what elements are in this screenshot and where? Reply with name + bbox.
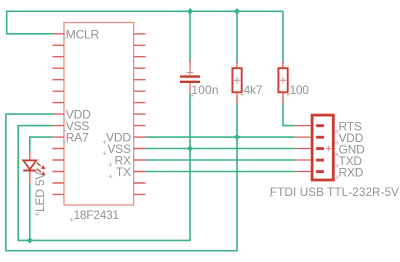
- origin cross for RXD conn label: [335, 175, 339, 179]
- wire RTS net: [283, 103, 295, 126]
- origin cross for VSS left label: [63, 128, 67, 132]
- origin cross for RTS label: [335, 129, 339, 133]
- svg-text:FTDI USB TTL-232R-5V: FTDI USB TTL-232R-5V: [270, 186, 399, 199]
- pin name VDD left: [66, 108, 91, 122]
- connector J1 pin name VDD: [339, 131, 364, 145]
- resistor R2 origin cross: [280, 77, 287, 84]
- IC U1 value 18F2431: [74, 208, 120, 222]
- resistor R2 value 100: [290, 83, 310, 97]
- svg-text:LED 5V: LED 5V: [33, 172, 47, 212]
- wire resistor R2 top drop: [282, 11, 284, 63]
- LED D1 cathode bar: [23, 170, 36, 172]
- pin name TX: [116, 165, 131, 179]
- resistor R2 bottom lead: [282, 92, 284, 103]
- capacitor C1 plates: [180, 77, 200, 82]
- connector J1 origin cross: [326, 146, 331, 151]
- IC U1 left pins: [53, 34, 65, 195]
- IC U1 right pins: [134, 34, 146, 195]
- connector J1 pin name GND: [339, 143, 366, 157]
- origin cross for GND conn label: [335, 152, 339, 156]
- wire VSS loop left: [18, 93, 190, 241]
- origin cross for VDD right label: [103, 140, 107, 144]
- connector J1 value FTDI USB TTL-232R-5V: [270, 186, 399, 199]
- origin cross for VDD left label: [63, 117, 67, 121]
- resistor R2 top lead: [282, 62, 284, 69]
- wire RX to TXD: [146, 159, 295, 161]
- origin cross for FTDI value label: [269, 193, 273, 197]
- origin cross for 100 label: [286, 93, 290, 97]
- pin name VDD right: [106, 131, 131, 145]
- connector J1 pin name TXD: [339, 154, 363, 168]
- origin cross for VDD conn label: [335, 141, 339, 145]
- origin cross for RA7 label: [63, 140, 67, 144]
- connector J1 FTDI box: [312, 115, 333, 180]
- origin cross for 18F2431 label: [70, 218, 74, 222]
- LED D1 triangle: [23, 160, 36, 169]
- connector J1 pin stubs: [295, 126, 311, 172]
- resistor R1 value 4k7: [244, 83, 263, 97]
- wire TX to RXD: [146, 171, 295, 173]
- LED D1 light arrow 2: [37, 169, 46, 176]
- connector J1 pin name RTS: [339, 120, 362, 134]
- wire VSS row right: [146, 148, 295, 150]
- LED D1 light arrow 1: [37, 163, 46, 170]
- svg-text:4k7: 4k7: [244, 83, 263, 97]
- origin cross for RX label: [109, 163, 113, 167]
- svg-text:MCLR: MCLR: [66, 27, 100, 41]
- svg-text:100n: 100n: [191, 83, 219, 97]
- capacitor C1 value 100n: [191, 83, 219, 97]
- capacitor C1 leads: [189, 60, 191, 93]
- connector J1 pin name RXD: [339, 166, 364, 180]
- svg-text:100: 100: [290, 83, 310, 97]
- pin name VSS right: [107, 142, 131, 156]
- origin cross for TX label: [109, 174, 113, 178]
- origin cross for LED value label: [35, 213, 39, 217]
- origin cross for VSS right label: [103, 151, 107, 155]
- wire cap C1 top lead drop: [189, 11, 191, 62]
- svg-text:RA7: RA7: [66, 131, 89, 145]
- junction top rail at R1: [234, 8, 240, 14]
- pin name RA7: [66, 131, 89, 145]
- wire VDD loop left: [6, 103, 237, 251]
- resistor R1 4k7 body: [232, 68, 241, 92]
- resistor R1 origin cross: [234, 77, 241, 84]
- origin cross for 4k7 label: [240, 93, 244, 97]
- svg-text:18F2431: 18F2431: [74, 208, 120, 222]
- origin cross for TXD conn label: [335, 164, 339, 168]
- connector J1 pads: [316, 124, 324, 173]
- LED D1 leads: [29, 152, 31, 184]
- pin name MCLR: [66, 27, 100, 41]
- capacitor C1 origin cross: [187, 69, 194, 76]
- wire resistor R1 top drop: [236, 11, 238, 63]
- pin name RX: [115, 154, 131, 168]
- wire MCLR net top rail: [7, 11, 283, 34]
- junction top rail at C1: [187, 8, 193, 14]
- IC U1 18F2431 body: [64, 23, 134, 206]
- origin cross for 100n label: [190, 93, 194, 97]
- junction VSS row at C1 bottom: [187, 145, 193, 151]
- pin name VSS left: [66, 119, 90, 133]
- LED D1 value LED 5V rotated: [33, 172, 47, 212]
- origin cross for MCLR label: [63, 37, 67, 41]
- wire LED cathode down: [29, 184, 31, 241]
- svg-text:RXD: RXD: [339, 166, 364, 180]
- wire VDD row right: [146, 136, 295, 138]
- resistor R1 bottom lead: [236, 92, 238, 103]
- junction VSS bottom at LED: [27, 237, 33, 243]
- wire RA7 to LED: [30, 137, 53, 152]
- svg-text:TX: TX: [116, 165, 131, 179]
- resistor R1 top lead: [236, 62, 238, 69]
- junction VDD row at R1 bottom: [234, 134, 240, 140]
- resistor R2 100 body: [278, 68, 287, 92]
